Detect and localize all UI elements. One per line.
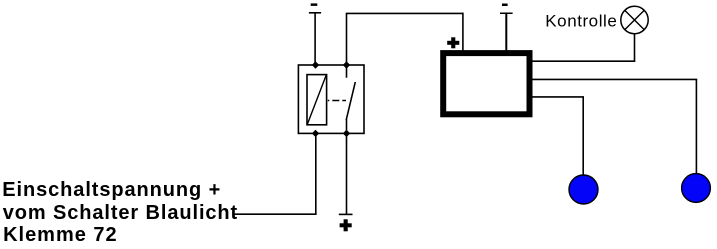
junction dot relay bottom-left xyxy=(312,130,319,137)
relay K1 outline xyxy=(298,65,364,133)
dashed actuation link xyxy=(328,100,346,102)
relay contact fixed stub xyxy=(346,65,348,78)
wire: left minus terminal to relay top-left xyxy=(314,13,316,65)
terminal bar left minus xyxy=(309,12,321,14)
wire: flasher to left beacon horizontal xyxy=(533,96,585,98)
wire: top horizontal to flasher xyxy=(346,12,463,14)
plus label at flasher input xyxy=(447,37,459,48)
wire: right minus terminal down to flasher xyxy=(505,14,507,51)
wire: flasher to right beacon horizontal xyxy=(533,78,698,80)
wire: relay bottom-left down xyxy=(315,134,317,214)
junction dot relay top-right xyxy=(343,61,350,68)
indicator lamp Kontrolle xyxy=(621,6,648,33)
wire: flasher to control lamp xyxy=(533,60,636,62)
plus label bottom terminal xyxy=(340,219,352,231)
coil diagonal xyxy=(307,75,326,125)
wire: right beacon drop xyxy=(695,79,697,174)
wire: left beacon drop xyxy=(582,97,584,176)
wire: relay top-right up xyxy=(346,13,348,65)
wire: down into flasher plus input xyxy=(462,13,464,51)
wire: control lamp drop xyxy=(634,33,636,61)
blue beacon lamp right xyxy=(682,174,711,203)
terminal bar right minus xyxy=(500,13,513,15)
relay contact lever xyxy=(346,82,355,120)
wire: horizontal to switch text xyxy=(234,213,317,215)
svg-text:Kontrolle: Kontrolle xyxy=(545,12,617,31)
minus label right terminal xyxy=(502,4,508,7)
minus label left terminal xyxy=(311,3,318,6)
junction dot relay top-left xyxy=(312,61,319,68)
wire: relay bottom-right down to plus terminal xyxy=(346,134,348,214)
svg-text:Einschaltspannung +: Einschaltspannung + xyxy=(2,179,220,201)
blue beacon lamp left xyxy=(569,175,598,204)
flasher unit box xyxy=(443,53,529,114)
relay contact bottom stub xyxy=(346,120,348,135)
terminal bar bottom plus xyxy=(339,214,353,216)
svg-text:Klemme 72: Klemme 72 xyxy=(3,224,117,246)
svg-text:vom Schalter Blaulicht: vom Schalter Blaulicht xyxy=(3,202,238,224)
junction dot relay bottom-right xyxy=(343,130,350,137)
relay coil xyxy=(307,75,327,125)
